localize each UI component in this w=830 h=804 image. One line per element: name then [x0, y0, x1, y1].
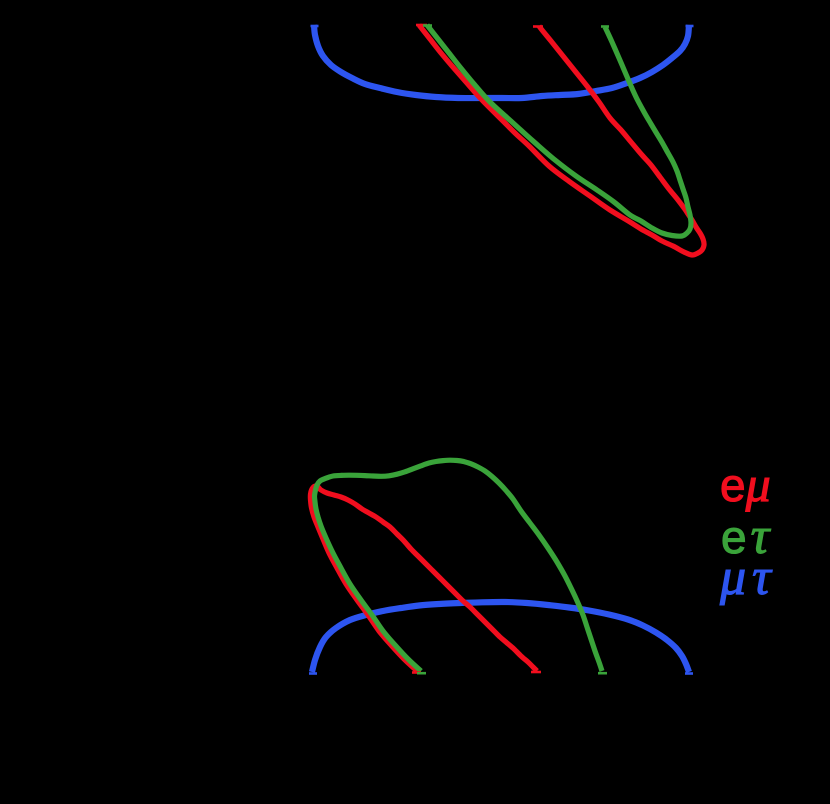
blue end tick, bottom right	[685, 672, 693, 675]
green end tick, bottom right	[598, 672, 607, 675]
green e-tau contour, top panel	[427, 25, 691, 236]
blue mu-tau contour arc, bottom panel	[312, 602, 689, 672]
green e-tau contour, bottom panel	[314, 460, 602, 671]
blue mu-tau contour arc, top panel	[314, 25, 689, 98]
green end tick, top left pair	[423, 24, 432, 27]
red end tick, bottom middle	[531, 671, 541, 674]
svg-text:eμ: eμ	[720, 456, 771, 512]
green end tick, top right	[601, 25, 609, 28]
green end tick, bottom left pair	[417, 672, 426, 675]
svg-text:μτ: μτ	[719, 549, 773, 606]
red end tick, bottom left pair	[412, 671, 421, 674]
red end tick, top left pair	[416, 24, 427, 27]
red e-mu contour, bottom panel	[310, 486, 537, 671]
blue end tick, top right	[686, 25, 694, 28]
blue end tick, top left	[311, 25, 319, 28]
blue end tick, bottom left	[309, 672, 317, 675]
red e-mu contour, top panel	[419, 25, 704, 255]
red end tick, top middle	[533, 25, 543, 28]
